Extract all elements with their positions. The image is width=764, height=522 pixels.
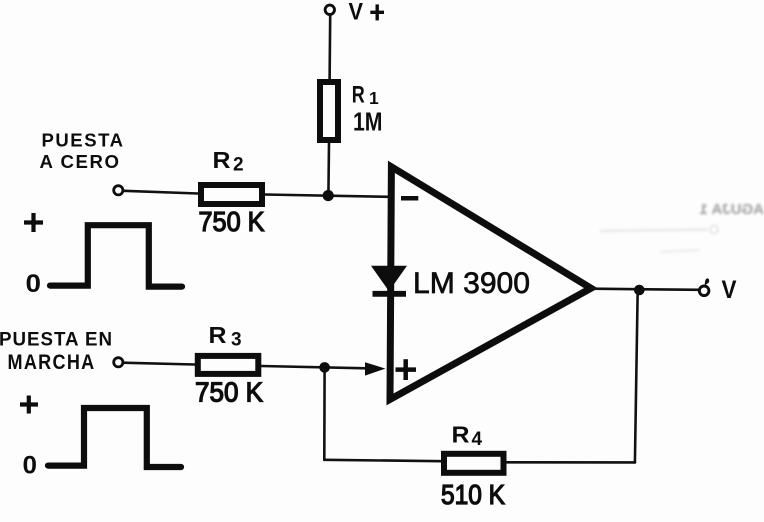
node B junction dot bbox=[319, 362, 330, 373]
wire R4 to output node bbox=[507, 461, 635, 464]
diode D1 body bbox=[371, 266, 407, 291]
waveform pulse 1 plus sign bbox=[24, 213, 43, 232]
ghost bleed-through mark AGUJA bbox=[700, 201, 764, 218]
resistor R2 body bbox=[201, 185, 262, 204]
waveform pulse 2 trace bbox=[48, 408, 181, 467]
svg-text:3: 3 bbox=[231, 330, 242, 351]
svg-text:0: 0 bbox=[26, 270, 42, 298]
resistor R4 body bbox=[444, 454, 504, 473]
svg-text:750 K: 750 K bbox=[195, 377, 264, 408]
terminal puesta en marcha bbox=[114, 358, 123, 367]
wire R3 to plus input bbox=[262, 366, 373, 368]
op-amp plus input sign bbox=[396, 359, 417, 380]
wire R2 to op-amp minus input bbox=[265, 195, 390, 197]
svg-text:1: 1 bbox=[369, 88, 379, 108]
node A junction dot bbox=[323, 190, 334, 201]
resistor R1 body bbox=[320, 82, 338, 140]
waveform pulse 1 trace bbox=[50, 225, 182, 286]
svg-text:510 K: 510 K bbox=[441, 479, 506, 510]
plus of V+ bbox=[370, 4, 384, 20]
wire node B down bbox=[323, 369, 326, 460]
svg-text:PUESTA EN: PUESTA EN bbox=[0, 328, 113, 350]
svg-text:R: R bbox=[209, 322, 227, 348]
svg-text:A CERO: A CERO bbox=[40, 152, 121, 172]
svg-text:2: 2 bbox=[233, 155, 244, 176]
wire op-amp output bbox=[592, 289, 700, 290]
wire terminal to R2 bbox=[123, 191, 198, 194]
svg-text:R: R bbox=[452, 422, 470, 448]
arrow into plus input bbox=[365, 362, 386, 375]
wire up to node C bbox=[635, 289, 638, 462]
svg-text:R: R bbox=[352, 82, 365, 109]
op-amp U1 triangle bbox=[390, 167, 591, 400]
svg-text:1M: 1M bbox=[353, 107, 383, 137]
terminal V output bbox=[699, 286, 709, 296]
terminal V tick bbox=[705, 278, 709, 285]
svg-text:PUESTA: PUESTA bbox=[42, 131, 125, 151]
ghost bleed-through dashed wire bbox=[600, 226, 718, 253]
diode D1 cathode bar bbox=[373, 291, 407, 297]
wire R1 to node A bbox=[327, 143, 330, 196]
wire bottom left to R4 bbox=[324, 460, 441, 461]
resistor R3 body bbox=[198, 356, 258, 374]
waveform pulse 2 plus sign bbox=[20, 396, 38, 414]
svg-text:V: V bbox=[349, 0, 364, 26]
op-amp minus input sign bbox=[401, 196, 418, 201]
svg-text:R: R bbox=[213, 147, 231, 173]
wire V+ to R1 bbox=[328, 15, 331, 80]
terminal puesta a cero bbox=[114, 186, 123, 195]
svg-text:750 K: 750 K bbox=[199, 206, 266, 237]
svg-text:0: 0 bbox=[23, 452, 38, 480]
wire terminal to R3 bbox=[123, 363, 194, 365]
svg-text:LM 3900: LM 3900 bbox=[413, 267, 530, 300]
svg-text:4: 4 bbox=[472, 429, 483, 450]
svg-text:MARCHA: MARCHA bbox=[8, 351, 96, 374]
svg-text:AGUJA 1: AGUJA 1 bbox=[700, 201, 764, 218]
terminal V+ bbox=[325, 5, 334, 14]
node C junction dot bbox=[634, 285, 645, 296]
svg-text:V: V bbox=[722, 276, 737, 304]
